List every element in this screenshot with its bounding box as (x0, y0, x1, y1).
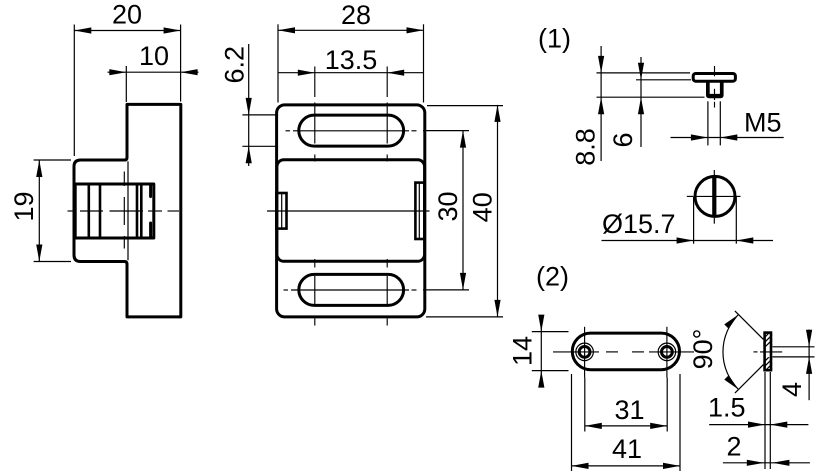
svg-text:31: 31 (614, 395, 644, 425)
svg-text:1.5: 1.5 (708, 393, 746, 423)
svg-text:90°: 90° (688, 329, 718, 370)
svg-text:M5: M5 (744, 108, 782, 138)
svg-text:41: 41 (612, 434, 642, 464)
svg-text:(1): (1) (538, 24, 571, 54)
svg-text:6: 6 (608, 132, 638, 147)
svg-text:40: 40 (468, 192, 498, 222)
svg-text:10: 10 (139, 41, 169, 71)
svg-text:14: 14 (508, 336, 538, 366)
svg-text:Ø15.7: Ø15.7 (602, 209, 676, 239)
svg-text:13.5: 13.5 (325, 45, 378, 75)
svg-text:(2): (2) (536, 262, 569, 292)
svg-text:19: 19 (9, 191, 39, 221)
svg-text:2: 2 (727, 432, 742, 462)
svg-text:30: 30 (433, 191, 463, 221)
svg-text:6.2: 6.2 (220, 46, 250, 84)
svg-text:28: 28 (341, 0, 371, 30)
svg-text:4: 4 (777, 382, 807, 397)
svg-text:20: 20 (112, 0, 142, 30)
svg-text:8.8: 8.8 (571, 128, 601, 166)
